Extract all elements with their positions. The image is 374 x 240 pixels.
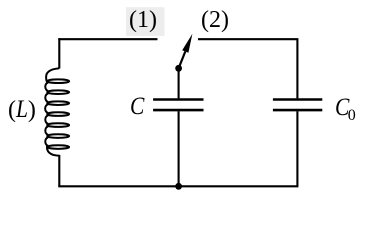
wire top-right segment (node 2 side)	[198, 39, 297, 98]
label (L)	[8, 97, 36, 122]
switch pivot node	[175, 65, 182, 72]
capacitor C top plate	[153, 98, 203, 101]
label (2)	[201, 8, 229, 32]
wire middle branch lower	[178, 111, 180, 186]
inductor L left arc 6	[45, 137, 48, 145]
inductor L left arc 3	[45, 105, 48, 113]
inductor L left arc 4	[45, 116, 48, 124]
wire left vertical lower	[58, 155, 60, 186]
inductor L turn 6	[47, 134, 69, 138]
inductor L turn 5	[47, 123, 69, 127]
inductor L turn 3	[47, 101, 69, 105]
inductor L exit hook	[47, 145, 59, 155]
switch arrowhead	[182, 34, 192, 53]
inductor L left arc 5	[45, 126, 48, 134]
label C0	[335, 95, 356, 120]
inductor L turn 7	[47, 145, 69, 149]
capacitor C bottom plate	[153, 109, 203, 112]
junction node bottom	[175, 183, 182, 190]
wire left vertical upper	[58, 38, 60, 68]
inductor L turn 4	[47, 112, 69, 116]
inductor L turn 2	[47, 90, 69, 94]
inductor L entry hook	[46, 68, 59, 83]
capacitor C0 bottom plate	[273, 109, 322, 112]
inductor L left arc 2	[45, 94, 48, 102]
wire middle branch upper (switch pivot to capacitor C)	[178, 68, 180, 98]
wire top-left segment (node 1 side)	[59, 38, 157, 39]
capacitor C0 top plate	[273, 98, 322, 101]
label (1)	[129, 8, 157, 32]
wire bottom	[58, 185, 298, 187]
label (1) highlight box	[126, 7, 165, 36]
switch arm	[179, 52, 186, 69]
wire right vertical lower	[296, 111, 298, 186]
inductor L turn 1	[47, 79, 69, 83]
label C	[130, 94, 147, 119]
inductor L left arc 1	[45, 83, 48, 91]
